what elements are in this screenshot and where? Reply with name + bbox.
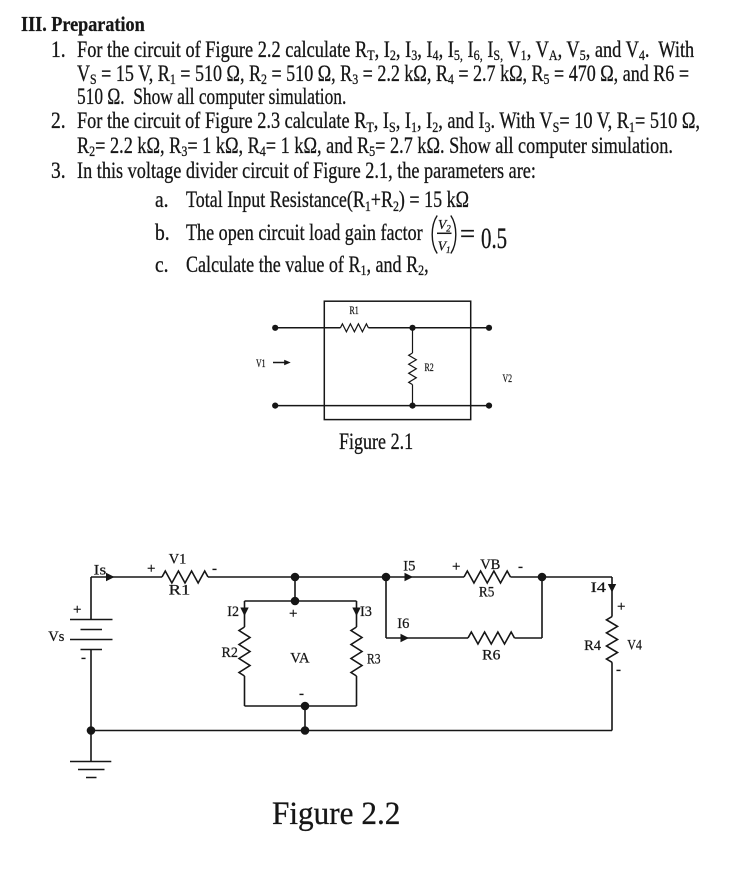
- svg-text:-: -: [81, 650, 86, 666]
- svg-text:Vs: Vs: [48, 629, 64, 645]
- svg-text:Is: Is: [94, 562, 107, 578]
- svg-text:-: -: [518, 559, 523, 575]
- svg-text:+: +: [452, 559, 460, 575]
- svg-text:+: +: [289, 606, 297, 622]
- svg-text:V1: V1: [256, 356, 266, 370]
- svg-text:+: +: [73, 602, 81, 618]
- svg-text:I5: I5: [403, 558, 415, 574]
- svg-text:R2: R2: [425, 360, 434, 374]
- svg-text:VA: VA: [290, 650, 309, 666]
- svg-text:V1: V1: [438, 239, 451, 256]
- svg-text:I4: I4: [591, 580, 607, 596]
- svg-text:V4: V4: [627, 637, 642, 653]
- svg-text:R4: R4: [584, 638, 601, 654]
- svg-text:R2: R2: [222, 645, 238, 661]
- svg-text:R6: R6: [482, 647, 501, 663]
- svg-text:I6: I6: [397, 616, 410, 632]
- svg-text:+: +: [147, 561, 155, 577]
- svg-text:V2: V2: [438, 217, 451, 234]
- svg-text:+: +: [617, 599, 625, 615]
- svg-text:R1: R1: [169, 583, 191, 599]
- svg-text:-: -: [299, 686, 304, 702]
- svg-text:R5: R5: [479, 585, 494, 601]
- svg-text:-: -: [616, 662, 621, 678]
- svg-text:-: -: [212, 561, 217, 577]
- svg-text:V2: V2: [503, 371, 513, 385]
- svg-text:VB: VB: [480, 557, 500, 573]
- svg-text:V1: V1: [169, 551, 187, 567]
- svg-text:I2: I2: [227, 604, 239, 620]
- svg-text:R3: R3: [367, 651, 381, 667]
- svg-text:R1: R1: [350, 303, 359, 317]
- svg-text:I3: I3: [360, 604, 372, 620]
